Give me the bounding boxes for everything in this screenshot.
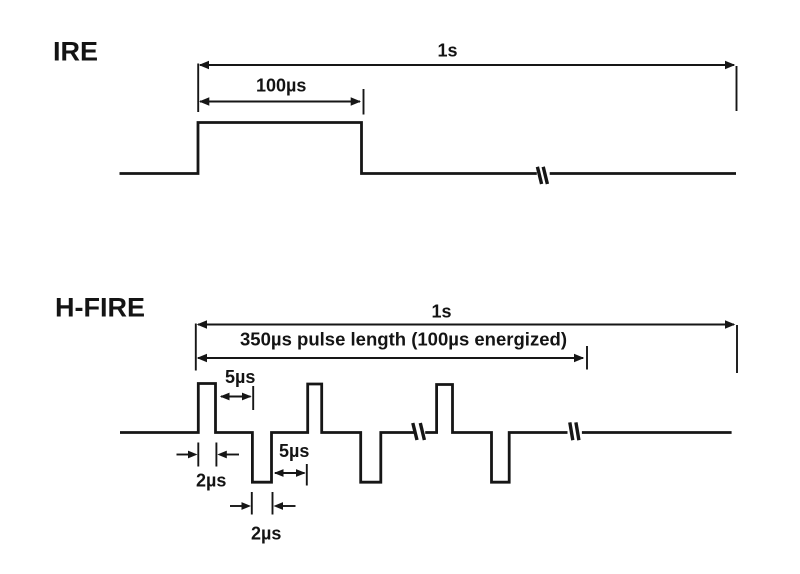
svg-text:5µs: 5µs [279, 441, 309, 461]
svg-text:1s: 1s [432, 302, 452, 322]
svg-text:2µs: 2µs [196, 471, 226, 491]
svg-text:2µs: 2µs [251, 524, 281, 544]
svg-text:350µs pulse length (100µs ener: 350µs pulse length (100µs energized) [240, 330, 567, 350]
svg-text:IRE: IRE [53, 37, 98, 67]
svg-text:H-FIRE: H-FIRE [55, 293, 145, 323]
svg-text:100µs: 100µs [256, 76, 306, 96]
svg-text:1s: 1s [438, 41, 458, 61]
svg-text:5µs: 5µs [225, 367, 255, 387]
